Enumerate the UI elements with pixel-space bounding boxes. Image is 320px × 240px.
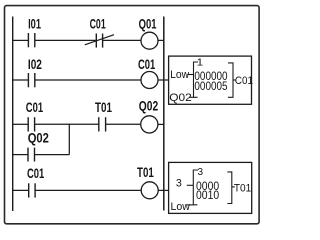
svg-text:3: 3 [176, 178, 182, 190]
svg-text:000005: 000005 [194, 79, 227, 93]
svg-text:3: 3 [198, 167, 204, 178]
svg-text:T01: T01 [234, 183, 251, 195]
wire rung2 mid [35, 79, 141, 81]
timer function box T01 [169, 162, 252, 213]
contact T01 [99, 117, 106, 131]
contact C01 [29, 183, 35, 197]
coil Q02 [141, 116, 158, 133]
left power rail [12, 17, 14, 212]
coil C01 [141, 72, 158, 89]
coil Q01 [141, 32, 158, 49]
wire coil C01 to counter box [158, 79, 169, 81]
svg-text:Q02: Q02 [28, 129, 49, 145]
wire coil Q01 to rail [158, 39, 164, 41]
wire rung3 right [106, 123, 141, 125]
timer left bracket [193, 170, 198, 205]
counter right bracket [228, 63, 233, 97]
right power rail [163, 17, 165, 211]
svg-text:I02: I02 [28, 56, 42, 72]
svg-text:Q02: Q02 [139, 97, 159, 113]
wire Low to bracket [187, 74, 193, 76]
contact Q02 (parallel branch) [28, 148, 35, 162]
wire branch junction riser [68, 124, 70, 155]
wire rung3 left [13, 123, 29, 125]
wire branch right [35, 154, 70, 156]
wire bracket to T01 label [232, 186, 235, 188]
wire rung3 mid [35, 123, 99, 125]
svg-text:Low: Low [170, 69, 189, 81]
counter function box C01 [169, 56, 252, 104]
wire rung1 mid [35, 39, 97, 41]
svg-text:C01: C01 [26, 99, 43, 115]
svg-text:C01: C01 [27, 165, 44, 181]
svg-text:T01: T01 [137, 164, 154, 180]
wire branch left [13, 154, 28, 156]
wire rung4 left [13, 189, 29, 191]
wire Q02 to bracket bottom [189, 96, 193, 98]
wire coil T01 to timer box [158, 189, 168, 191]
svg-text:0010: 0010 [196, 188, 219, 202]
wire rung2 left [13, 79, 29, 81]
timer right bracket [227, 172, 231, 204]
svg-text:Q01: Q01 [139, 15, 157, 31]
wire coil Q02 to rail [158, 123, 164, 125]
wire rung4 mid [35, 189, 141, 191]
contact C01 [28, 117, 34, 131]
contact I01 [28, 33, 34, 47]
contact I02 [28, 73, 34, 87]
svg-text:C01: C01 [138, 56, 155, 72]
svg-text:C01: C01 [90, 16, 106, 32]
wire bracket to C01 label [233, 79, 236, 81]
wire Low to bracket bottom [187, 204, 193, 206]
wire rung1 right [103, 39, 142, 41]
contact C01 (NC) [85, 34, 114, 48]
svg-text:Low: Low [171, 201, 191, 213]
counter left bracket [194, 62, 199, 97]
svg-text:Q02: Q02 [169, 92, 192, 104]
coil T01 [141, 182, 158, 199]
svg-text:I01: I01 [28, 16, 41, 32]
wire rung1 left [13, 39, 29, 41]
svg-text:C01: C01 [235, 75, 253, 87]
wire operand to bracket [187, 184, 194, 186]
svg-text:T01: T01 [95, 99, 112, 115]
svg-text:1: 1 [197, 58, 204, 69]
